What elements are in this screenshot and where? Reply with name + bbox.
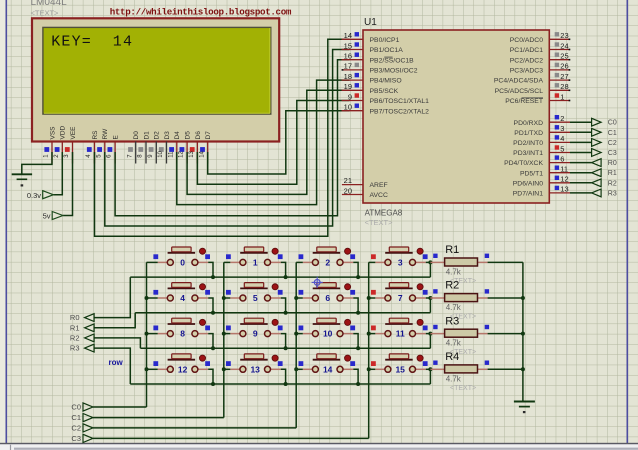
svg-text:19: 19 [344,82,352,91]
window strip below sheet [0,445,638,450]
MCU pin 21 (AREF) [342,176,388,189]
svg-text:0.3v: 0.3v [27,191,41,200]
MCU pin 24 (PC1/ADC1) [510,41,571,54]
terminal R1 (left) [70,323,94,332]
svg-text:PD3/INT1: PD3/INT1 [513,150,543,157]
wire SW8 right pin to row line 2 [208,334,213,349]
svg-text:D6: D6 [195,131,202,140]
svg-text:4: 4 [560,134,564,143]
svg-text:3: 3 [560,124,564,133]
wire SW6 right pin to row line 1 [353,298,358,313]
wire LCD VDD to 0.3v terminal [53,152,62,195]
svg-text:17: 17 [344,62,352,71]
svg-text:15: 15 [344,41,352,50]
svg-text:PC1/ADC1: PC1/ADC1 [510,47,543,54]
wire SW15 right pin to resistor R4 [426,368,433,370]
wire SW4 right pin to row line 1 [208,298,213,313]
button SW14 [299,354,356,375]
terminal R3 (left) [70,344,94,353]
wire terminal C2 to column 2 [93,427,296,429]
MCU pin 1 (PC6/RESET) [505,92,570,105]
wire row line 2 [140,347,430,349]
junction column 0 row 1 [145,296,149,300]
svg-text:<TEXT>: <TEXT> [450,385,476,392]
svg-text:PC3/ADC3: PC3/ADC3 [510,68,543,75]
svg-text:PD4/T0/XCK: PD4/T0/XCK [504,160,543,167]
wire column 2 vertical (C2 net) [295,262,297,428]
svg-text:VDD: VDD [60,125,67,139]
wire MCU pin 2 to terminal C0 [570,121,592,123]
svg-text:http://whileinthisloop.blogspo: http://whileinthisloop.blogspot.com [110,7,292,18]
terminal R2 (left) [70,334,94,343]
junction row line 1 col 0 [211,311,215,315]
wire terminal R1 to row line 1 [94,313,135,328]
svg-text:25: 25 [560,52,568,61]
wire row line 3 [130,383,430,385]
svg-text:PB3/MOSI/OC2: PB3/MOSI/OC2 [370,68,418,75]
junction ground bus row 1 [521,296,525,300]
svg-text:R3: R3 [608,190,617,197]
MCU pin 9 (PB6/TOSC1/XTAL1) [342,92,430,105]
svg-text:R3: R3 [70,344,80,353]
junction resistor R1 input [428,260,432,264]
svg-text:3: 3 [398,258,403,268]
svg-text:7: 7 [398,293,403,303]
svg-text:VEE: VEE [70,126,77,140]
wire SW2 left pin to column 2 [296,261,303,263]
svg-text:R1: R1 [445,244,459,256]
svg-text:D0: D0 [133,131,140,140]
junction row line 1 col 1 [284,311,288,315]
svg-text:14: 14 [113,34,133,51]
svg-text:14: 14 [344,31,352,40]
svg-text:10: 10 [323,329,333,339]
svg-text:PC0/ADC0: PC0/ADC0 [510,37,543,44]
wire resistor R1 to ground bus [488,261,523,263]
svg-text:PB6/TOSC1/XTAL1: PB6/TOSC1/XTAL1 [370,98,430,105]
wire terminal R3 to row line 3 [94,348,130,384]
junction column 3 row 1 [367,296,371,300]
svg-text:11: 11 [560,165,568,174]
svg-text:PB7/TOSC2/XTAL2: PB7/TOSC2/XTAL2 [370,108,430,115]
svg-text:R4: R4 [445,351,459,363]
wire LCD D4 to MCU PB4 [177,80,350,205]
button SW4 [153,283,210,304]
svg-text:PB0/ICP1: PB0/ICP1 [370,37,400,44]
svg-text:PB1/OC1A: PB1/OC1A [370,47,404,54]
LCD pin 1 (VSS) [44,126,57,164]
svg-text:C1: C1 [71,413,81,422]
svg-text:C2: C2 [608,140,617,147]
junction column 1 row 2 [222,332,226,336]
wire LCD D7 to MCU PB7 [208,111,350,174]
svg-text:R0: R0 [608,160,617,167]
terminal C1 (right) [592,128,617,136]
svg-text:<TEXT>: <TEXT> [365,218,394,227]
wire ground bus vertical [522,262,524,401]
button SW2 [299,247,356,268]
origin marker [312,277,323,288]
terminal C2 (right) [592,139,617,147]
button SW12 [153,354,210,375]
wire SW5 left pin to column 1 [224,297,231,299]
wire MCU pin 11 to terminal R1 [570,172,592,174]
svg-text:10: 10 [344,103,352,112]
wire SW12 left pin to column 0 [147,368,158,370]
LCD pin 5 (RW) [96,128,109,164]
ground (left) [12,174,32,186]
wire LCD VEE to 5v terminal [63,152,73,216]
svg-text:PD0/RXD: PD0/RXD [514,120,544,127]
svg-text:24: 24 [560,41,568,50]
junction row line 2 col 2 [356,346,360,350]
wire LCD E to MCU PB2 [115,60,349,216]
svg-text:PB2/SS/OC1B: PB2/SS/OC1B [370,57,415,64]
LCD pin 7 (D0) [127,131,140,164]
button SW13 [226,354,283,375]
wire row line 1 [135,312,430,314]
MCU pin 14 (PB0/ICP1) [342,31,400,44]
svg-text:23: 23 [560,31,568,40]
svg-text:14: 14 [199,150,205,157]
button SW8 [153,318,210,339]
junction column 2 row 1 [294,296,298,300]
junction column 3 row 3 [367,367,371,371]
button SW9 [226,318,283,339]
button SW3 [371,247,428,268]
svg-text:4.7k: 4.7k [446,339,462,348]
button SW1 [226,247,283,268]
svg-text:R1: R1 [70,323,80,332]
wire SW13 left pin to column 1 [224,368,231,370]
wire SW1 left pin to column 1 [224,261,231,263]
svg-text:RW: RW [102,128,109,140]
LCD pin 12 (D5) [179,131,192,164]
junction row line 3 col 2 [356,382,360,386]
svg-text:12: 12 [179,150,185,157]
MCU pin 13 (PD7/AIN1) [513,185,570,198]
wire SW8 left pin to column 0 [147,333,158,335]
junction row line 3 col 1 [284,382,288,386]
junction row line 0 col 2 [356,275,360,279]
junction row line 0 col 0 [211,275,215,279]
wire SW11 left pin to column 3 [369,333,376,335]
wire resistor R2 to ground bus [488,297,523,299]
svg-text:D3: D3 [164,131,171,140]
wire row 3 to resistor junction [429,369,431,384]
wire row 2 to resistor junction [429,334,431,349]
MCU pin 23 (PC0/ADC0) [510,31,571,44]
wire SW12 right pin to row line 3 [208,369,213,384]
sheet border right (blue) [626,0,628,444]
svg-text:row: row [109,358,124,367]
wire MCU pin 5 to terminal C3 [570,152,592,154]
svg-text:VSS: VSS [49,126,56,140]
svg-text:12: 12 [560,175,568,184]
junction column 1 row 1 [222,296,226,300]
svg-text:C3: C3 [608,150,617,157]
button SW10 [299,318,356,339]
wire column 0 vertical (C0 net) [146,262,148,407]
svg-text:6: 6 [325,293,330,303]
LCD screen inner highlight [44,112,270,114]
wire SW4 left pin to column 0 [147,297,158,299]
wire SW14 left pin to column 2 [296,368,303,370]
margin left of sheet [0,0,5,444]
svg-text:C2: C2 [71,424,81,433]
svg-text:5: 5 [560,144,564,153]
junction resistor R4 input [428,367,432,371]
junction row line 3 col 0 [211,382,215,386]
LCD pin 9 (D2) [148,131,161,164]
svg-text:D1: D1 [143,131,150,140]
wire LCD D6 to MCU PB6 [197,101,349,185]
svg-text:0: 0 [180,258,185,268]
wire MCU pin 12 to terminal R2 [570,182,592,184]
sheet border left (blue) [5,0,7,444]
junction row line 1 col 2 [356,311,360,315]
svg-text:1: 1 [253,258,258,268]
svg-text:KEY=: KEY= [51,34,92,51]
svg-text:PC5/ADC5/SCL: PC5/ADC5/SCL [495,88,544,95]
terminal R0 (right) [592,159,617,167]
wire resistor R3 to ground bus [488,333,523,335]
MCU pin 25 (PC2/ADC2) [510,52,571,65]
svg-text:11: 11 [168,151,174,158]
wire SW13 right pin to row line 3 [281,369,286,384]
svg-text:R2: R2 [608,180,617,187]
svg-text:6: 6 [560,154,564,163]
wire row 0 to resistor junction [429,262,431,277]
terminal C3 (right) [592,149,617,157]
svg-text:5: 5 [253,293,258,303]
junction column 3 row 2 [367,332,371,336]
wire SW6 left pin to column 2 [296,297,303,299]
svg-text:14: 14 [323,364,333,374]
LCD pin 10 (D3) [158,131,171,164]
sheet border bottom (dark) [0,443,638,445]
svg-text:C3: C3 [71,434,81,443]
terminal R3 (right) [592,189,617,197]
wire SW14 right pin to row line 3 [353,369,358,384]
terminal C2 (bottom) [71,424,92,433]
MCU pin 15 (PB1/OC1A) [342,41,404,54]
MCU pin 12 (PD6/AIN0) [513,175,570,188]
wire terminal R2 to row line 2 [94,338,140,348]
button SW11 [371,318,428,339]
MCU pin 26 (PC3/ADC3) [510,62,571,75]
terminal 5v [43,212,63,221]
wire LCD VSS to ground [22,152,52,174]
svg-text:D5: D5 [185,131,192,140]
terminal R0 (left) [70,313,94,322]
svg-text:U1: U1 [364,17,377,28]
svg-text:PD5/T1: PD5/T1 [520,170,543,177]
svg-text:11: 11 [396,329,405,339]
junction ground bus row 2 [521,332,525,336]
terminal 0.3v [27,191,54,200]
svg-text:C1: C1 [608,130,617,137]
wire MCU pin 3 to terminal C1 [570,131,592,133]
junction row line 0 col 1 [284,275,288,279]
MCU pin 28 (PC5/ADC5/SCL) [495,82,571,95]
LCD pin 14 (D7) [199,131,212,164]
wire SW7 right pin to resistor R2 [426,297,433,299]
svg-text:26: 26 [560,62,568,71]
wire SW1 right pin to row line 0 [281,262,286,277]
svg-text:5v: 5v [43,212,51,221]
wire SW9 left pin to column 1 [224,333,231,335]
terminal C0 (right) [592,118,617,126]
wire SW10 left pin to column 2 [296,333,303,335]
svg-text:13: 13 [560,185,568,194]
junction row line 2 col 0 [211,346,215,350]
svg-text:R1: R1 [608,170,617,177]
resistor R2 [430,289,489,301]
junction column 2 row 2 [294,332,298,336]
wire terminal R0 to row line 0 [94,277,130,318]
junction column 2 row 3 [294,367,298,371]
junction column 0 row 3 [145,367,149,371]
terminal R2 (right) [592,179,617,187]
wire SW7 left pin to column 3 [369,297,376,299]
terminal C1 (bottom) [71,413,92,422]
svg-text:D7: D7 [205,131,212,140]
svg-text:13: 13 [250,364,260,374]
svg-text:R2: R2 [445,280,459,292]
LCD pin 4 (RS) [86,130,99,164]
junction column 0 row 2 [145,332,149,336]
svg-text:28: 28 [560,82,568,91]
svg-text:18: 18 [344,72,352,81]
resistor R1 [430,254,489,266]
wire MCU pin 6 to terminal R0 [570,162,592,164]
button SW7 [371,283,428,304]
button SW0 [153,247,210,268]
svg-text:9: 9 [253,329,258,339]
MCU pin 27 (PC4/ADC4/SDA) [494,72,570,85]
wire SW2 right pin to row line 0 [353,262,358,277]
wire column 1 vertical (C1 net) [223,262,225,417]
junction column 1 row 3 [222,367,226,371]
MCU pin 6 (PD4/T0/XCK) [504,154,570,167]
LCD pin 13 (D6) [189,131,202,164]
button SW5 [226,283,283,304]
LCD pin 2 (VDD) [54,125,67,163]
svg-text:PD7/AIN1: PD7/AIN1 [513,191,543,198]
svg-text:12: 12 [178,364,188,374]
svg-text:2: 2 [560,114,564,123]
svg-text:PC4/ADC4/SDA: PC4/ADC4/SDA [494,78,544,85]
wire SW15 left pin to column 3 [369,368,376,370]
svg-text:13: 13 [189,150,195,157]
MCU pin 19 (PB5/SCK) [342,82,399,95]
resistor R4 [430,361,489,373]
svg-text:PC2/ADC2: PC2/ADC2 [510,57,543,64]
wire SW3 left pin to column 3 [369,261,376,263]
svg-text:21: 21 [344,176,352,185]
wire terminal C0 to column 0 [93,406,147,408]
svg-text:PD2/INT0: PD2/INT0 [513,140,543,147]
svg-text:20: 20 [344,186,352,195]
LCD screen [43,27,271,114]
junction row line 2 col 1 [284,346,288,350]
MCU pin 11 (PD5/T1) [520,165,570,178]
ground (right) [514,402,535,414]
MCU pin 10 (PB7/TOSC2/XTAL2) [342,103,430,116]
junction resistor R3 input [428,332,432,336]
wire SW3 right pin to resistor R1 [426,261,433,263]
svg-text:LM044L: LM044L [31,0,68,8]
MCU pin 20 (AVCC) [342,186,388,199]
MCU pin 16 (PB2/SS/OC1B) [342,52,415,65]
wire SW0 right pin to row line 0 [208,262,213,277]
svg-text:27: 27 [560,72,568,81]
LCD pin 3 (VEE) [64,126,77,164]
LCD LM044L body [32,18,279,141]
MCU pin 18 (PB4/MISO) [342,72,402,85]
wire SW0 left pin to column 0 [147,261,158,263]
svg-text:R2: R2 [70,334,80,343]
wire SW5 right pin to row line 1 [281,298,286,313]
wire SW9 right pin to row line 2 [281,334,286,349]
svg-text:C0: C0 [608,120,617,127]
svg-text:R0: R0 [70,313,80,322]
svg-text:4.7k: 4.7k [446,374,462,383]
terminal C3 (bottom) [71,434,92,443]
MCU U1 body [363,30,549,203]
MCU pin 5 (PD3/INT1) [513,144,570,157]
LCD pin 6 (E) [107,135,120,164]
svg-text:15: 15 [395,364,405,374]
svg-text:16: 16 [344,52,352,61]
wire resistor R4 to ground bus [488,368,523,370]
wire row line 0 [130,276,430,278]
svg-text:2: 2 [325,258,330,268]
terminal R1 (right) [592,169,617,177]
svg-text:C0: C0 [71,403,81,412]
button SW6 [299,283,356,304]
wire terminal C3 to column 3 [93,437,369,439]
svg-text:<TEXT>: <TEXT> [31,8,60,17]
MCU pin 4 (PD2/INT0) [513,134,570,147]
svg-text:AVCC: AVCC [370,192,388,199]
wire LCD RW to MCU PB1 [105,50,350,227]
svg-text:PB5/SCK: PB5/SCK [370,88,399,95]
svg-text:ATMEGA8: ATMEGA8 [365,208,403,217]
svg-text:PD1/TXD: PD1/TXD [514,130,543,137]
wire terminal C1 to column 1 [93,417,224,419]
junction resistor R2 input [428,296,432,300]
junction ground bus row 3 [521,367,525,371]
wire LCD RS to MCU PB0 [95,39,350,236]
svg-text:R3: R3 [445,315,459,327]
svg-text:4: 4 [180,293,185,303]
resistor R3 [430,325,489,337]
svg-text:PD6/AIN0: PD6/AIN0 [513,180,543,187]
terminal C0 (bottom) [71,403,92,412]
svg-text:AREF: AREF [370,182,388,189]
svg-text:RS: RS [92,130,99,140]
wire SW10 right pin to row line 2 [353,334,358,349]
svg-text:1: 1 [560,92,564,101]
svg-text:PC6/RESET: PC6/RESET [505,98,543,105]
svg-text:4.7k: 4.7k [446,268,462,277]
wire column 3 vertical (C3 net) [368,262,370,438]
MCU pin 2 (PD0/RXD) [514,114,570,127]
LCD pin 8 (D1) [138,131,151,164]
button SW15 [371,354,428,375]
